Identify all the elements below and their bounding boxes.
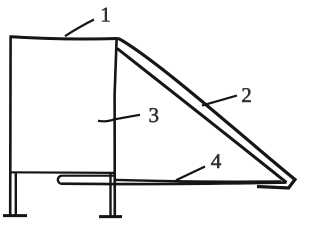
left foot bbox=[3, 214, 27, 217]
bottom rail lower line bbox=[62, 183, 287, 184]
leader line for label 1 bbox=[65, 20, 94, 37]
label 2 bbox=[242, 88, 250, 102]
panel lower edge bbox=[117, 49, 286, 183]
right leg inner line bbox=[109, 174, 111, 217]
pipe rounded left cap bbox=[58, 176, 62, 184]
bottom rail upper line bbox=[116, 180, 281, 182]
label 3 bbox=[150, 108, 159, 122]
right foot bbox=[99, 215, 122, 218]
tank box right edge bbox=[115, 39, 117, 216]
tank box top edge bbox=[10, 37, 119, 39]
leader line for label 3 bbox=[98, 115, 140, 122]
label 4 bbox=[211, 154, 221, 168]
left leg inner line bbox=[15, 173, 17, 215]
leader line for label 2 bbox=[202, 96, 237, 106]
leader line for label 4 bbox=[176, 167, 205, 181]
tank box bottom edge bbox=[11, 171, 116, 174]
pipe top line bbox=[62, 175, 116, 177]
panel upper edge with corner tip bbox=[119, 39, 296, 189]
tank box left edge bbox=[9, 37, 12, 216]
label 1 bbox=[102, 8, 109, 22]
